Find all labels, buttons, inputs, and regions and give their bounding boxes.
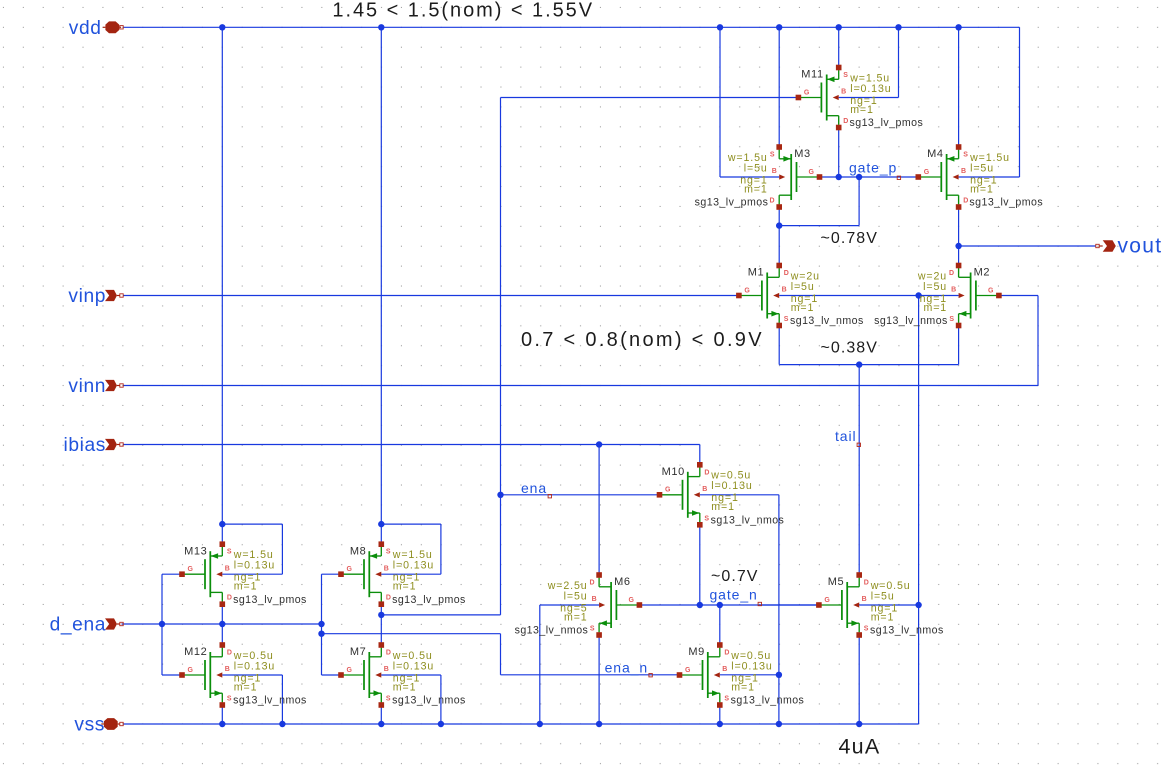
svg-text:~0.7V: ~0.7V xyxy=(711,568,759,585)
svg-text:m=1: m=1 xyxy=(791,302,815,314)
svg-text:m=1: m=1 xyxy=(234,581,258,593)
svg-text:D: D xyxy=(724,650,729,657)
svg-text:l=0.13u: l=0.13u xyxy=(234,560,275,572)
svg-text:l=0.13u: l=0.13u xyxy=(393,660,434,672)
svg-text:vss: vss xyxy=(74,715,105,736)
svg-text:tail: tail xyxy=(835,428,857,444)
svg-text:D: D xyxy=(386,650,391,657)
svg-text:sg13_lv_nmos: sg13_lv_nmos xyxy=(790,315,864,327)
svg-text:B: B xyxy=(782,287,787,294)
svg-text:gate_p: gate_p xyxy=(849,160,897,176)
svg-text:M6: M6 xyxy=(614,576,630,588)
svg-text:l=5u: l=5u xyxy=(564,590,588,602)
svg-text:4uA: 4uA xyxy=(839,735,881,759)
svg-text:G: G xyxy=(988,287,994,294)
svg-text:G: G xyxy=(685,667,691,674)
svg-text:sg13_lv_pmos: sg13_lv_pmos xyxy=(233,594,307,606)
svg-text:m=1: m=1 xyxy=(393,581,417,593)
svg-text:l=0.13u: l=0.13u xyxy=(711,480,752,492)
svg-text:sg13_lv_nmos: sg13_lv_nmos xyxy=(874,315,948,327)
svg-text:S: S xyxy=(770,152,775,159)
svg-text:G: G xyxy=(347,667,353,674)
svg-text:ena_n: ena_n xyxy=(605,659,648,675)
svg-text:D: D xyxy=(963,198,968,205)
svg-text:D: D xyxy=(770,198,775,205)
svg-text:l=0.13u: l=0.13u xyxy=(234,660,275,672)
svg-text:m=1: m=1 xyxy=(564,611,588,623)
svg-text:l=5u: l=5u xyxy=(791,281,815,293)
svg-text:B: B xyxy=(951,287,956,294)
svg-text:G: G xyxy=(809,169,815,176)
svg-text:S: S xyxy=(784,316,789,323)
svg-text:D: D xyxy=(227,650,232,657)
svg-text:D: D xyxy=(949,270,954,277)
svg-text:sg13_lv_nmos: sg13_lv_nmos xyxy=(731,695,805,707)
svg-text:l=0.13u: l=0.13u xyxy=(850,83,891,95)
svg-text:1.45 < 1.5(nom) < 1.55V: 1.45 < 1.5(nom) < 1.55V xyxy=(332,0,594,21)
svg-text:G: G xyxy=(744,287,750,294)
svg-text:D: D xyxy=(227,595,232,602)
svg-text:M5: M5 xyxy=(828,576,844,588)
svg-text:M8: M8 xyxy=(350,545,366,557)
svg-text:D: D xyxy=(589,580,594,587)
svg-text:l=5u: l=5u xyxy=(871,590,895,602)
svg-text:B: B xyxy=(592,596,597,603)
svg-text:0.7 < 0.8(nom) < 0.9V: 0.7 < 0.8(nom) < 0.9V xyxy=(521,329,764,351)
svg-text:S: S xyxy=(724,696,729,703)
svg-text:vout: vout xyxy=(1118,235,1163,258)
svg-text:sg13_lv_nmos: sg13_lv_nmos xyxy=(870,625,944,637)
svg-text:gate_n: gate_n xyxy=(710,586,758,602)
svg-text:m=1: m=1 xyxy=(234,681,258,693)
svg-text:ena: ena xyxy=(521,480,547,496)
svg-text:l=0.13u: l=0.13u xyxy=(393,560,434,572)
svg-text:vinn: vinn xyxy=(68,376,106,397)
svg-text:D: D xyxy=(386,595,391,602)
svg-text:S: S xyxy=(843,72,848,79)
svg-text:S: S xyxy=(704,515,709,522)
svg-text:sg13_lv_nmos: sg13_lv_nmos xyxy=(233,695,307,707)
svg-text:S: S xyxy=(227,549,232,556)
svg-text:B: B xyxy=(862,596,867,603)
svg-text:G: G xyxy=(188,566,194,573)
svg-text:m=1: m=1 xyxy=(711,501,735,513)
svg-text:S: S xyxy=(386,549,391,556)
svg-text:m=1: m=1 xyxy=(393,681,417,693)
svg-text:B: B xyxy=(384,666,389,673)
svg-text:B: B xyxy=(384,565,389,572)
svg-text:G: G xyxy=(628,597,634,604)
svg-text:B: B xyxy=(722,666,727,673)
svg-text:G: G xyxy=(665,487,671,494)
svg-text:sg13_lv_nmos: sg13_lv_nmos xyxy=(515,625,589,637)
svg-text:S: S xyxy=(386,696,391,703)
svg-text:B: B xyxy=(702,486,707,493)
svg-text:S: S xyxy=(864,626,869,633)
svg-text:M3: M3 xyxy=(794,148,810,160)
svg-text:M1: M1 xyxy=(748,267,764,279)
svg-text:B: B xyxy=(225,666,230,673)
svg-text:B: B xyxy=(841,89,846,96)
svg-text:M10: M10 xyxy=(662,466,685,478)
svg-text:M4: M4 xyxy=(927,148,943,160)
svg-text:~0.38V: ~0.38V xyxy=(821,340,878,357)
svg-text:G: G xyxy=(347,566,353,573)
svg-text:sg13_lv_nmos: sg13_lv_nmos xyxy=(392,695,466,707)
svg-text:B: B xyxy=(961,168,966,175)
svg-text:B: B xyxy=(225,565,230,572)
svg-text:S: S xyxy=(227,696,232,703)
svg-text:m=1: m=1 xyxy=(923,302,947,314)
svg-text:G: G xyxy=(804,89,810,96)
svg-text:ibias: ibias xyxy=(64,435,106,456)
svg-text:M7: M7 xyxy=(350,646,366,658)
svg-text:D: D xyxy=(864,580,869,587)
svg-text:S: S xyxy=(949,316,954,323)
svg-text:G: G xyxy=(824,597,830,604)
svg-text:M2: M2 xyxy=(974,267,990,279)
svg-text:sg13_lv_pmos: sg13_lv_pmos xyxy=(850,117,924,129)
svg-text:M11: M11 xyxy=(801,69,823,81)
svg-text:m=1: m=1 xyxy=(970,183,994,195)
svg-text:sg13_lv_nmos: sg13_lv_nmos xyxy=(711,514,785,526)
svg-text:D: D xyxy=(843,118,848,125)
svg-text:d_ena: d_ena xyxy=(50,615,106,636)
svg-text:l=0.13u: l=0.13u xyxy=(731,660,772,672)
svg-text:M13: M13 xyxy=(184,545,207,557)
svg-text:l=5u: l=5u xyxy=(970,162,994,174)
svg-text:sg13_lv_pmos: sg13_lv_pmos xyxy=(392,594,466,606)
svg-text:sg13_lv_pmos: sg13_lv_pmos xyxy=(695,197,769,209)
svg-text:l=5u: l=5u xyxy=(923,281,947,293)
svg-text:D: D xyxy=(704,469,709,476)
svg-text:M9: M9 xyxy=(688,646,704,658)
svg-text:l=5u: l=5u xyxy=(744,162,768,174)
svg-text:G: G xyxy=(924,169,930,176)
svg-text:sg13_lv_pmos: sg13_lv_pmos xyxy=(969,197,1043,209)
svg-text:vinp: vinp xyxy=(68,286,106,307)
svg-text:D: D xyxy=(784,270,789,277)
svg-text:G: G xyxy=(188,667,194,674)
svg-text:S: S xyxy=(590,626,595,633)
svg-text:~0.78V: ~0.78V xyxy=(821,230,878,247)
svg-text:vdd: vdd xyxy=(69,18,102,39)
svg-text:M12: M12 xyxy=(184,646,207,658)
svg-text:B: B xyxy=(772,168,777,175)
svg-text:m=1: m=1 xyxy=(731,681,755,693)
svg-text:m=1: m=1 xyxy=(850,104,874,116)
svg-text:S: S xyxy=(963,152,968,159)
svg-text:m=1: m=1 xyxy=(744,183,768,195)
svg-text:m=1: m=1 xyxy=(871,611,895,623)
